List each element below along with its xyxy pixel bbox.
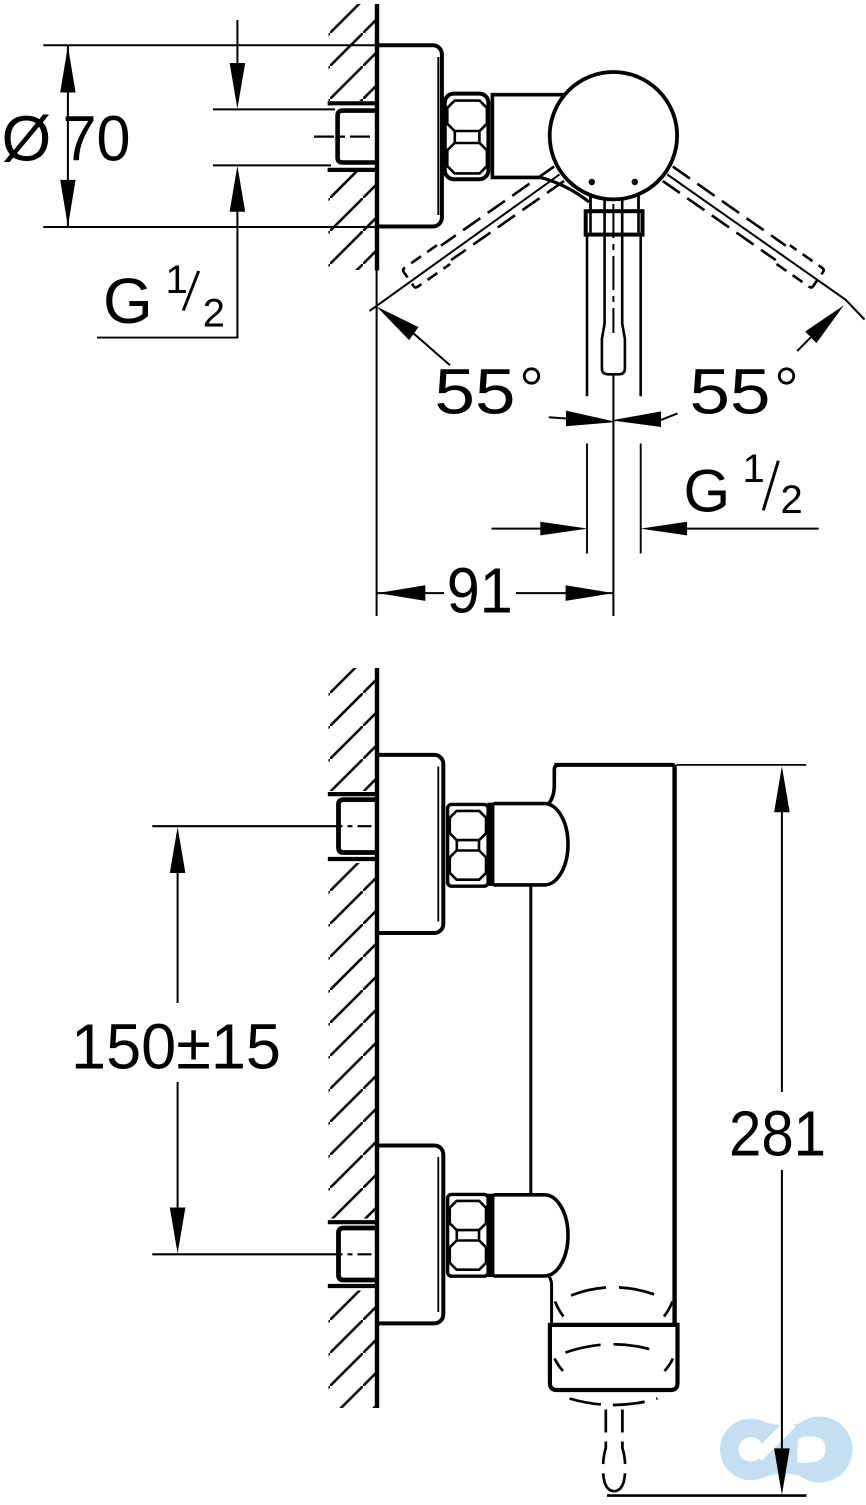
lever collar ring [586, 211, 643, 234]
body lower-left outline [549, 1276, 552, 1323]
swing axis line right [667, 175, 864, 320]
G1/2 extension lines [213, 108, 335, 110]
svg-text:55: 55 [690, 355, 771, 427]
watermark logo [729, 1417, 852, 1483]
plug stub bottom [328, 168, 378, 172]
dashed swung lever right (55 deg) [402, 164, 566, 288]
lever neck (top view) [589, 196, 592, 212]
hidden arcs in collar [566, 1344, 661, 1352]
escutcheon flange (top view) [376, 45, 442, 226]
G1/2 label underline (top-left) [97, 337, 238, 339]
G1/2 vertical dimension arrows (top-left) [236, 20, 238, 63]
diameter 70 extension lines [43, 44, 376, 46]
lower escutcheon flange [376, 1146, 443, 1324]
lower union dome [494, 1195, 569, 1276]
outlet extension lines (lower) [586, 444, 588, 554]
150 dimension [170, 827, 186, 873]
281 extension line top [677, 764, 807, 766]
281 dimension [774, 766, 790, 812]
lower wall plug [339, 1228, 380, 1280]
body top edge [554, 763, 674, 767]
wall face line (top view) [375, 4, 379, 271]
valve body (top view) [492, 95, 564, 178]
svg-text:281: 281 [729, 1098, 826, 1170]
lever stem (top view) [602, 199, 625, 374]
swing axis line left [370, 175, 560, 312]
left angle arrowhead [377, 307, 419, 341]
hidden arcs above outlet [571, 1287, 658, 1295]
outlet silhouette lines under lever [586, 235, 589, 397]
plug stub top [328, 101, 378, 105]
wall plug / G1/2 inlet square (top view) [338, 111, 379, 163]
screw dot right [632, 179, 638, 185]
svg-text:1: 1 [166, 258, 188, 302]
body tube left edge between unions [529, 885, 532, 1195]
dashed swung lever left (55 deg) [661, 164, 825, 288]
wall hatching (side view) [329, 668, 377, 1408]
91 dimension line [378, 592, 614, 594]
wall hatching (top view) [329, 4, 377, 270]
plug centerline dash-dot [314, 136, 376, 138]
hidden hose outlet funnel [570, 1399, 658, 1492]
svg-text:55: 55 [435, 355, 516, 427]
svg-text:2: 2 [203, 292, 225, 336]
upper centerline / 150 extension [152, 825, 328, 827]
diameter 70 dimension line with arrows [67, 45, 69, 227]
svg-text:1: 1 [743, 447, 765, 491]
svg-text:G: G [103, 265, 153, 337]
baseline extension for 281 [607, 1494, 807, 1497]
right angle arrowhead [805, 305, 844, 343]
wall face line (side view) [375, 668, 379, 1408]
svg-text:91: 91 [447, 554, 513, 626]
svg-text:150±15: 150±15 [71, 1010, 281, 1082]
svg-text:2: 2 [781, 478, 803, 522]
G1/2 dimension (outlet) [492, 528, 541, 530]
screw dot left [589, 179, 595, 185]
hex union nut (top view) [445, 94, 489, 180]
svg-text:G: G [684, 457, 731, 524]
svg-text:70: 70 [63, 102, 131, 174]
crossing arrows small dimension [566, 411, 617, 427]
lower centerline / 150 extension [152, 1253, 328, 1255]
upper union dome [494, 804, 569, 885]
shower outlet collar [550, 1325, 678, 1390]
body upper-left outline [549, 765, 560, 804]
center line down to 91 dimension [612, 375, 614, 616]
lever stem centerline [612, 204, 614, 333]
redraw 281 arrow over logo [781, 1400, 783, 1449]
upper escutcheon flange [376, 755, 443, 933]
upper wall plug [339, 800, 380, 853]
wall face extension line down to 91 dimension [376, 271, 378, 617]
upper hex union nut (side view) [448, 804, 489, 886]
body right edge [672, 765, 676, 1325]
cartridge sphere (top view) [550, 72, 677, 199]
body-to-sphere fillet [541, 177, 589, 202]
svg-text:Ø: Ø [2, 102, 52, 174]
lower hex union nut (side view) [448, 1194, 489, 1276]
